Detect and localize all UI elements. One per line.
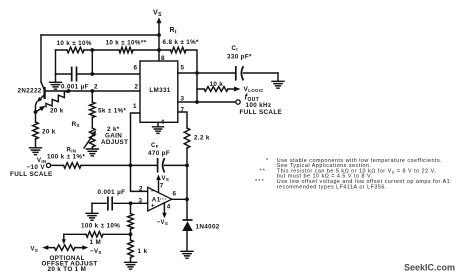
svg-text:2N2222: 2N2222 <box>18 88 42 95</box>
svg-text:1 k: 1 k <box>138 248 148 255</box>
svg-text:4: 4 <box>161 119 165 126</box>
svg-text:2: 2 <box>94 84 98 91</box>
node CF right junction <box>185 164 189 168</box>
ground (top 0.001uF) <box>50 74 62 89</box>
wire pin3 row <box>178 101 236 103</box>
ground (2k pot) <box>86 147 98 156</box>
svg-text:10 k: 10 k <box>210 81 224 88</box>
resistor 2.2k <box>184 128 210 148</box>
resistor 10k to Vlogic <box>197 81 235 91</box>
ground (20k emitter) <box>30 139 42 155</box>
pin 2 label (at box) <box>135 84 139 91</box>
svg-text:2: 2 <box>135 84 139 91</box>
wire summing to opamp pin2 <box>131 165 148 191</box>
wire wiper leg <box>62 234 66 244</box>
power V_S supply arrow <box>153 8 162 61</box>
svg-text:1 M: 1 M <box>90 239 102 246</box>
wire left leg down <box>55 50 57 74</box>
svg-text:1: 1 <box>133 103 137 110</box>
potentiometer 1M offset adjust <box>31 239 102 273</box>
svg-text:VS: VS <box>162 176 170 182</box>
svg-text:recommended types LF411A or LF: recommended types LF411A or LF356. <box>277 184 387 190</box>
resistor 1k <box>128 234 148 257</box>
svg-text:0.001 µF: 0.001 µF <box>98 189 126 196</box>
svg-text:6.8 k ± 1%*: 6.8 k ± 1%* <box>163 39 200 46</box>
svg-text:+: + <box>151 203 155 210</box>
wire 2.2k down to output <box>186 148 188 220</box>
node cap rail junction <box>90 72 94 76</box>
wire cap rail to pin6 <box>56 73 141 75</box>
wire left rail <box>40 35 42 82</box>
svg-text:7: 7 <box>160 183 164 190</box>
wire bus pin5-pin3 <box>196 73 198 102</box>
resistor Rt 6.8k 1%* <box>163 27 200 53</box>
node emitter junction <box>34 110 38 114</box>
svg-text:470 pF: 470 pF <box>148 150 170 157</box>
svg-text:0.001 µF: 0.001 µF <box>61 84 89 91</box>
power +Vs (op amp pin 7) <box>156 175 169 193</box>
svg-text:VS: VS <box>31 247 39 253</box>
wire resistor rail y50 <box>56 50 198 73</box>
resistor 100k 10% (vertical) <box>81 203 133 234</box>
svg-text:*: * <box>266 158 269 164</box>
pin 1 label <box>133 103 137 110</box>
svg-text:20 k: 20 k <box>42 129 56 136</box>
wire opamp output <box>172 191 187 200</box>
svg-text:4: 4 <box>167 204 171 211</box>
capacitor 0.001uF (top) <box>61 67 89 91</box>
wire pin3 row (opamp) <box>92 202 148 204</box>
svg-text:2: 2 <box>139 186 143 193</box>
pin 6 label <box>134 65 138 72</box>
wire pin7 to 2.2k <box>178 112 187 128</box>
svg-text:···: ··· <box>160 196 167 203</box>
svg-text:Ct: Ct <box>232 46 239 52</box>
svg-text:20 k TO 1 M: 20 k TO 1 M <box>48 266 87 273</box>
svg-text:***: *** <box>255 179 265 185</box>
svg-text:LM331: LM331 <box>149 87 170 94</box>
svg-text:SeekIC.com: SeekIC.com <box>404 263 455 273</box>
pin 8 label <box>161 55 165 62</box>
svg-text:1N4002: 1N4002 <box>196 224 220 231</box>
svg-text:20 k: 20 k <box>50 108 64 115</box>
resistor offset (horizontal) <box>64 232 131 238</box>
capacitor CF 470pF <box>131 143 188 173</box>
node base-Rs junction <box>90 89 94 93</box>
wire emitter to 20k <box>35 112 37 122</box>
transistor Q1 2N2222 <box>18 82 45 112</box>
pin 7 label <box>181 107 185 114</box>
svg-text:100 k ± 10%: 100 k ± 10% <box>81 222 120 229</box>
resistor 10k 10%** (right) <box>106 40 147 53</box>
pin 4 label <box>161 119 165 126</box>
svg-text:6: 6 <box>173 191 177 198</box>
node offset junction <box>129 232 133 236</box>
node base-pot junction <box>67 89 71 93</box>
node pin5 bus junction <box>195 71 199 75</box>
svg-text:5: 5 <box>181 65 185 72</box>
wire Rs to 2k pot <box>91 118 93 129</box>
ground (diode) <box>181 251 193 258</box>
node Vs junction top rail <box>157 33 161 37</box>
ground (LM331 pin 4) <box>153 122 164 133</box>
svg-text:FULL SCALE: FULL SCALE <box>10 171 53 178</box>
svg-text:10 k ± 10%**: 10 k ± 10%** <box>106 40 147 47</box>
svg-text:6: 6 <box>134 65 138 72</box>
wire Rs column top <box>91 91 93 102</box>
potentiometer 20k <box>36 91 68 115</box>
op-amp U1 LM331 box <box>140 61 178 122</box>
svg-text:**: ** <box>260 168 267 174</box>
node rail-Vs crossing <box>157 48 161 52</box>
resistor R_IN 100k 1%* <box>47 148 131 169</box>
wire top rail <box>41 34 159 36</box>
ground (Ct) <box>272 73 284 88</box>
node opamp output junction <box>185 197 189 201</box>
ground (1k) <box>125 258 137 270</box>
svg-text:8: 8 <box>161 55 165 62</box>
note asterisk footnotes <box>255 158 452 191</box>
svg-text:CF: CF <box>151 143 159 149</box>
terminal V_IN <box>10 158 53 178</box>
svg-text:FULL SCALE: FULL SCALE <box>240 109 283 116</box>
svg-text:5k ± 1%*: 5k ± 1%* <box>98 108 127 115</box>
svg-text:ADJUST: ADJUST <box>101 139 128 146</box>
resistor 20k (emitter) <box>33 122 56 139</box>
wire pin5 row <box>178 72 278 74</box>
pin 5 label <box>181 65 185 72</box>
wire 10k junction down <box>91 50 93 74</box>
svg-text:330 pF*: 330 pF* <box>227 54 252 61</box>
capacitor 0.001uF (bottom) <box>98 189 126 211</box>
svg-text:10 k ± 10%: 10 k ± 10% <box>57 40 92 47</box>
node pin2 label left <box>94 84 98 91</box>
svg-text:2.2 k: 2.2 k <box>194 135 210 142</box>
net V_LOGIC arrow <box>234 86 264 93</box>
op-amp A1*** <box>139 186 172 212</box>
node junction 10k/10k <box>90 48 94 52</box>
node summing junction <box>129 164 133 168</box>
diode D1 1N4002 <box>182 220 220 251</box>
pin 3 label <box>181 96 185 103</box>
ground (bottom 0.001uF) <box>86 203 98 220</box>
svg-text:−: − <box>150 188 154 195</box>
capacitor Ct 330pF <box>227 46 252 81</box>
wire pin2 row (base) <box>45 90 140 92</box>
wire pin1 to summing node <box>131 113 141 165</box>
potentiometer 2k* gain adjust <box>84 126 128 148</box>
svg-text:100 k ± 1%*: 100 k ± 1%* <box>47 154 85 161</box>
resistor 10k 10% (left) <box>57 40 92 53</box>
node pin3 bus junction <box>195 100 199 104</box>
node opamp pin3 junction <box>129 201 133 205</box>
power -Vs (op amp pin 4) <box>157 203 171 226</box>
terminal f_OUT <box>236 93 282 116</box>
resistor Rs 5k 1%* <box>72 102 127 128</box>
